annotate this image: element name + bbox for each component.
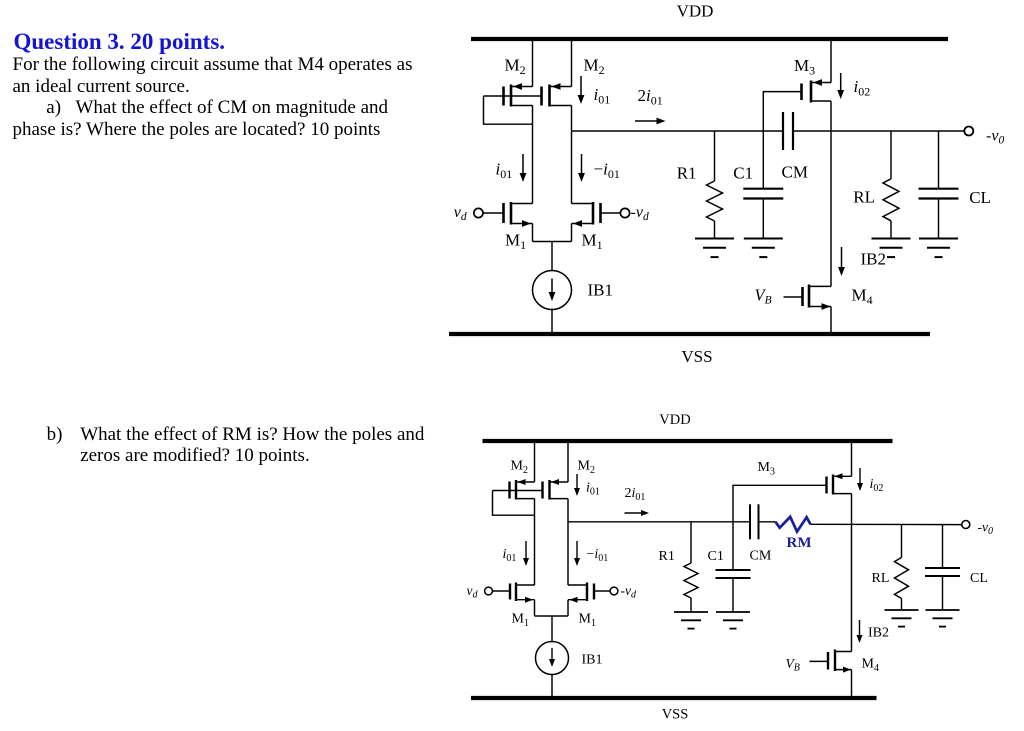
resistor RL (b) xyxy=(901,525,903,558)
svg-text:RL: RL xyxy=(872,571,890,586)
svg-text:RM: RM xyxy=(787,535,812,551)
wire: M3 gate to node A xyxy=(763,92,801,131)
transistor M4 (NMOS current source) xyxy=(830,131,832,286)
input terminal -vd xyxy=(620,208,629,217)
transistor M1 (right NMOS) xyxy=(592,202,595,225)
input terminal -vd (b) xyxy=(610,587,618,595)
part b) marker xyxy=(47,424,63,446)
wire: M4 gate lead (b) xyxy=(810,660,829,662)
transistor M1 (b, left NMOS) xyxy=(515,583,517,602)
current arrow -i01 (b) xyxy=(576,541,578,560)
svg-text:i01: i01 xyxy=(503,547,517,564)
svg-text:IB2: IB2 xyxy=(868,626,889,641)
transistor M3 (b PMOS) xyxy=(851,441,853,476)
svg-text:C1: C1 xyxy=(708,549,724,564)
transistor M4 (b NMOS) xyxy=(851,522,853,652)
transistor M3 (PMOS, second stage) xyxy=(830,39,832,83)
wire: M1 common source tail (b) xyxy=(535,615,569,617)
svg-text:2i01: 2i01 xyxy=(625,486,646,503)
svg-text:VDD: VDD xyxy=(677,2,714,21)
current source IB1 xyxy=(533,271,572,310)
svg-text:M2: M2 xyxy=(505,56,526,78)
wire: output node from CM to -v0 terminal xyxy=(793,130,964,132)
svg-text:−i01: −i01 xyxy=(594,160,620,182)
svg-text:M2: M2 xyxy=(511,459,528,477)
svg-text:M3: M3 xyxy=(758,460,775,478)
current arrow i01 (drain of right M2) xyxy=(580,76,582,97)
current arrow IB2 (b) xyxy=(859,620,861,637)
wire: M1 common source tail xyxy=(533,241,572,243)
question body text line 2 xyxy=(13,76,190,98)
ground (b R1) xyxy=(674,611,708,613)
svg-text:i01: i01 xyxy=(586,481,600,498)
bottom circuit: VDD rail xyxy=(483,439,893,443)
part a) marker xyxy=(46,97,61,119)
node A wire: first stage output xyxy=(572,130,784,132)
resistor RM (blue) xyxy=(776,517,811,532)
svg-text:−i01: −i01 xyxy=(587,547,609,564)
ground (b RL) xyxy=(885,609,919,611)
svg-text:VSS: VSS xyxy=(662,707,689,723)
svg-text:M1: M1 xyxy=(582,231,603,253)
output terminal -v0 xyxy=(964,127,973,136)
svg-text:IB1: IB1 xyxy=(582,653,603,668)
svg-text:M4: M4 xyxy=(852,286,873,308)
current arrow i02 xyxy=(840,73,842,92)
wire: M2 gates connection (b) xyxy=(493,490,543,492)
ground (C1) xyxy=(744,238,783,240)
top circuit: VSS rail xyxy=(449,332,930,336)
svg-text:2i01: 2i01 xyxy=(638,86,663,108)
svg-text:VB: VB xyxy=(755,286,772,307)
current arrow -i01 (right branch) xyxy=(581,154,583,175)
wire: RM to output node (b) xyxy=(811,523,962,525)
ground (b C1) xyxy=(716,611,750,613)
svg-text:CL: CL xyxy=(969,188,991,207)
bottom circuit: VSS rail xyxy=(471,696,877,700)
svg-text:CM: CM xyxy=(782,162,808,181)
svg-text:-v0: -v0 xyxy=(986,128,1004,147)
capacitor CM (Miller) xyxy=(782,112,784,150)
svg-text:i02: i02 xyxy=(870,477,884,494)
current arrow i01 (b left branch) xyxy=(525,541,527,560)
svg-text:VDD: VDD xyxy=(659,412,690,428)
wire: M4 gate lead xyxy=(784,296,803,298)
transistor M2 (b, left, diode-connected PMOS) xyxy=(534,441,536,482)
current arrow i02 (b) xyxy=(859,468,861,485)
ground (R1) xyxy=(695,238,734,240)
ground (b CL) xyxy=(926,609,960,611)
svg-text:vd: vd xyxy=(454,204,467,223)
wire: M2 diode loop (gate to drain) xyxy=(484,96,533,124)
current arrow i01 (b, right M2) xyxy=(576,474,578,490)
svg-text:-v0: -v0 xyxy=(978,520,994,538)
svg-text:IB2: IB2 xyxy=(861,250,887,269)
wire: CM right plate to RM xyxy=(759,521,776,523)
transistor M1 (left NMOS) xyxy=(510,202,513,225)
part a) text line 2 xyxy=(13,119,381,141)
question title xyxy=(14,29,226,55)
svg-text:i02: i02 xyxy=(854,77,871,99)
svg-text:R1: R1 xyxy=(677,164,697,183)
svg-text:-vd: -vd xyxy=(621,583,638,601)
current arrow 2i01 xyxy=(635,120,659,122)
transistor M1 (b, right NMOS) xyxy=(586,583,588,602)
svg-text:vd: vd xyxy=(467,583,479,601)
svg-text:RL: RL xyxy=(853,188,875,207)
ground (CL) xyxy=(919,238,958,240)
svg-text:i01: i01 xyxy=(594,85,611,107)
question body text line 1 xyxy=(13,54,413,76)
part b) text xyxy=(80,424,424,467)
svg-text:VB: VB xyxy=(786,656,800,674)
svg-text:M2: M2 xyxy=(584,56,605,78)
capacitor CL (b) xyxy=(942,525,944,568)
svg-text:M2: M2 xyxy=(578,459,595,477)
svg-text:-vd: -vd xyxy=(631,204,649,223)
svg-text:CM: CM xyxy=(750,549,772,564)
capacitor CL xyxy=(938,131,940,189)
svg-text:VSS: VSS xyxy=(681,347,712,366)
transistor M2 (right PMOS) xyxy=(540,87,543,106)
top circuit: VDD rail xyxy=(471,37,948,41)
resistor RL xyxy=(890,131,892,179)
svg-text:M1: M1 xyxy=(505,231,526,253)
svg-text:M3: M3 xyxy=(794,56,815,78)
capacitor C1 (b) xyxy=(732,522,734,570)
svg-text:M1: M1 xyxy=(579,612,596,630)
svg-text:i01: i01 xyxy=(496,160,513,182)
input terminal vd xyxy=(474,208,483,217)
capacitor CM (b) xyxy=(749,504,751,539)
current arrow 2i01 (b) xyxy=(625,512,644,514)
resistor R1 (b) xyxy=(690,522,692,563)
svg-text:M4: M4 xyxy=(862,657,879,675)
input terminal vd (b) xyxy=(485,587,493,595)
svg-text:R1: R1 xyxy=(659,549,675,564)
current arrow i01 (left branch) xyxy=(522,154,524,175)
node A wire (b): first stage output xyxy=(568,521,750,523)
transistor M2 (left, diode-connected PMOS) xyxy=(532,39,534,87)
capacitor C1 xyxy=(762,131,764,189)
wire: M2 diode loop (b) xyxy=(493,491,535,516)
wire: M3 gate to node A (b) xyxy=(733,485,827,522)
wire: M2 gates connection xyxy=(484,95,542,97)
svg-text:M1: M1 xyxy=(512,612,529,630)
resistor R1 xyxy=(714,131,716,181)
current arrow IB2 xyxy=(841,247,843,269)
ground (RL) xyxy=(872,238,911,240)
current source IB1 (b) xyxy=(536,642,569,675)
output terminal -v0 (b) xyxy=(962,521,970,529)
svg-text:C1: C1 xyxy=(733,164,753,183)
transistor M2 (b, right PMOS) xyxy=(541,482,543,499)
part a) text line 1 xyxy=(76,97,389,119)
svg-text:IB1: IB1 xyxy=(588,281,614,300)
svg-text:CL: CL xyxy=(970,571,988,586)
